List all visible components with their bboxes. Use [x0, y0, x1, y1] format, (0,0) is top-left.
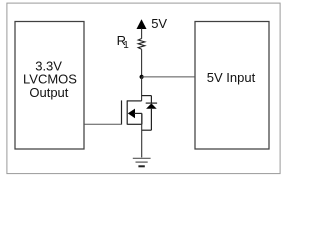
body diode of MOSFET — [142, 96, 158, 131]
svg-text:5V: 5V — [151, 16, 167, 31]
wire: R1 bottom to node A — [141, 49, 143, 77]
svg-text:Output: Output — [29, 85, 68, 100]
label R1 — [117, 33, 130, 51]
wire: MOSFET gate to LVCMOS Output block — [84, 123, 122, 125]
wire: MOSFET source to ground — [141, 113, 143, 157]
wire: node A to 5V Input block — [142, 76, 195, 78]
ground — [133, 158, 151, 166]
resistor R1 — [138, 39, 145, 50]
transistor: N-channel MOSFET — [122, 100, 142, 124]
wire: node A to MOSFET drain — [141, 77, 143, 101]
block: 5V Input receiver — [195, 22, 269, 150]
svg-text:1: 1 — [123, 40, 129, 51]
svg-text:5V Input: 5V Input — [207, 70, 256, 85]
wire: 5V arrow to resistor R1 top — [141, 29, 143, 39]
power symbol: +5V supply arrow — [137, 19, 147, 29]
block: 3.3V LVCMOS Output driver — [15, 22, 84, 150]
node A: junction dot — [140, 75, 144, 79]
